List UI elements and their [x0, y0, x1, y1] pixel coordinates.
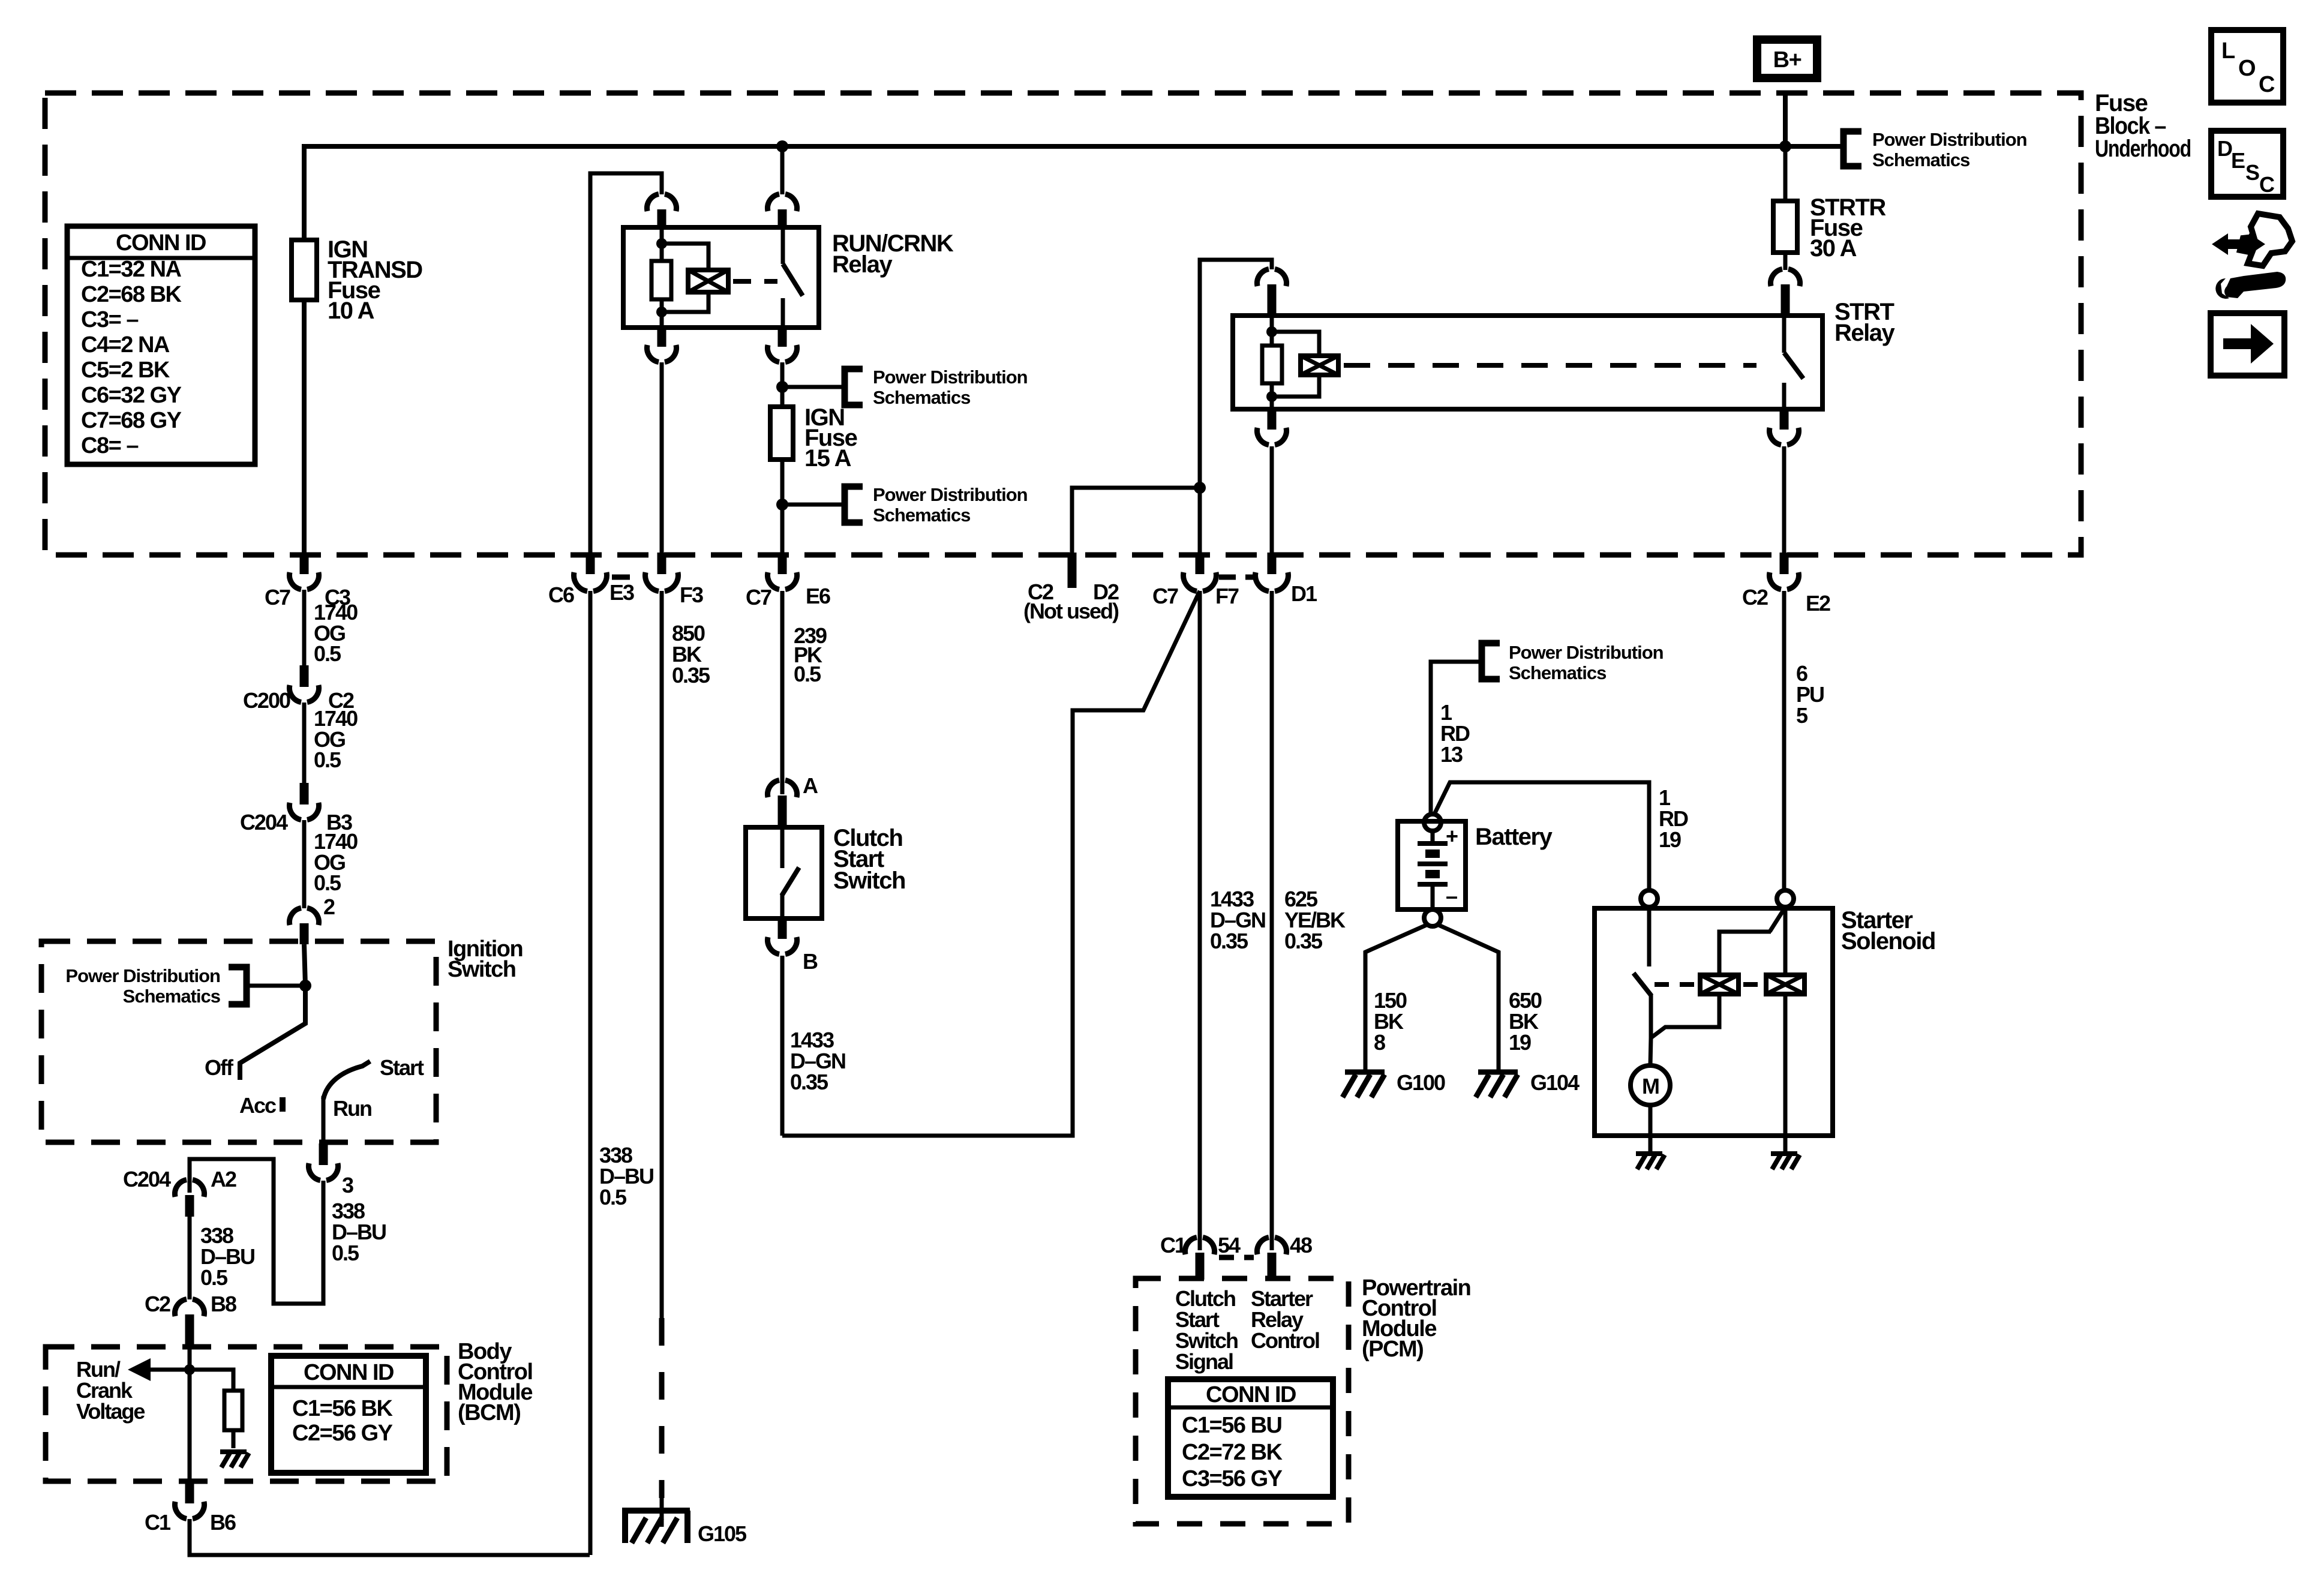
- connector bridge dash E3-F3: [612, 575, 642, 580]
- off-page bracket: Power Distribution Schematics (above IGN fuse): [782, 385, 845, 389]
- connector C204 cavity B3: [300, 783, 309, 804]
- wire main B+ bus: [304, 144, 1843, 149]
- svg-text:C: C: [2259, 72, 2275, 97]
- wire BCM internal run/crank voltage: [188, 1348, 192, 1484]
- wire 150 BK to G100: [1365, 924, 1429, 1071]
- svg-text:Run: Run: [333, 1096, 371, 1121]
- svg-text:13: 13: [1440, 742, 1463, 767]
- wire 338 D-BU loop from pin 3 to C204: [190, 1159, 323, 1304]
- svg-text:C2=72 BK: C2=72 BK: [1182, 1440, 1283, 1465]
- powertrain control module PCM (dashed box): [1136, 1278, 1349, 1524]
- svg-text:A2: A2: [211, 1167, 236, 1191]
- ignition position Acc tick: [280, 1097, 286, 1112]
- svg-text:M: M: [1642, 1074, 1659, 1098]
- icon LOC box: [2211, 30, 2283, 103]
- svg-text:8: 8: [1374, 1030, 1385, 1055]
- svg-text:Switch: Switch: [448, 957, 515, 982]
- svg-text:0.5: 0.5: [794, 662, 821, 686]
- CONN ID table (BCM): [271, 1356, 426, 1473]
- relay RUN/CRNK coil symbol: [688, 270, 728, 292]
- svg-text:G100: G100: [1397, 1070, 1445, 1095]
- svg-text:C7: C7: [1152, 584, 1178, 608]
- connector C200 cavity C2: [300, 665, 309, 687]
- svg-text:48: 48: [1290, 1233, 1312, 1257]
- svg-text:F3: F3: [680, 583, 703, 607]
- connector pin STRT relay coil bottom (85): [1268, 409, 1277, 430]
- svg-text:L: L: [2221, 38, 2235, 64]
- svg-text:0.35: 0.35: [1284, 929, 1323, 953]
- svg-text:Schematics: Schematics: [123, 986, 220, 1007]
- ground G100: [1343, 1072, 1385, 1097]
- svg-text:C1=56 BU: C1=56 BU: [1182, 1413, 1282, 1438]
- CONN ID table (fuse block): [67, 226, 255, 464]
- connector cavity F3: [657, 553, 666, 574]
- svg-text:CONN ID: CONN ID: [1206, 1382, 1296, 1407]
- wire STRT coil return to D1: [1270, 446, 1274, 553]
- junction below IGN fuse: [776, 499, 788, 511]
- svg-text:0.5: 0.5: [314, 748, 341, 772]
- wire 650 BK to G104: [1436, 924, 1499, 1071]
- svg-text:E2: E2: [1806, 591, 1830, 616]
- wire 1433 D-GN from clutch B: [780, 956, 785, 1136]
- switch clutch start: [746, 827, 822, 918]
- svg-text:G104: G104: [1530, 1070, 1580, 1095]
- solenoid switch left: [1647, 907, 1652, 966]
- wire 850 BK to G105 (upper solid): [660, 591, 664, 1318]
- connector C2 cavity D2 (not used): [1068, 553, 1077, 588]
- wire D1 down to PCM 48: [1270, 591, 1274, 1250]
- pin 2 entry into ignition switch: [289, 908, 319, 926]
- svg-text:0.35: 0.35: [790, 1070, 828, 1094]
- wire bus drop to RUN/CRNK relay switch (30): [780, 146, 785, 194]
- svg-text:Relay: Relay: [1834, 320, 1895, 346]
- wire relay switch output down to IGN fuse: [780, 362, 785, 553]
- svg-text:E6: E6: [806, 584, 830, 608]
- svg-text:E3: E3: [609, 580, 634, 605]
- svg-text:G105: G105: [698, 1521, 747, 1546]
- body control module BCM (dashed box): [46, 1347, 447, 1481]
- svg-text:Underhood: Underhood: [2095, 136, 2191, 162]
- connector C7 cavity E6: [778, 553, 787, 574]
- svg-text:Power Distribution: Power Distribution: [873, 484, 1028, 505]
- relay STRT coil circuit: [1270, 316, 1274, 346]
- svg-text:2: 2: [323, 894, 335, 919]
- relay STRT switch contact: [1782, 316, 1786, 409]
- wire D2 internal branch: [1072, 488, 1200, 553]
- svg-text:Start: Start: [380, 1055, 424, 1080]
- connector pin STRT relay switch top (30): [1770, 269, 1800, 287]
- relay STRT coil symbol: [1301, 356, 1338, 375]
- wire RUN/CRNK relay coil feed (from E3 drop): [590, 173, 662, 553]
- ground solenoid winding: [1771, 1154, 1800, 1169]
- pin 3 exit from ignition switch: [319, 1143, 328, 1165]
- svg-text:C7=68 GY: C7=68 GY: [81, 408, 182, 433]
- icon forward arrow box: [2211, 313, 2284, 376]
- resistor BCM pull-down: [190, 1370, 233, 1448]
- svg-text:C1: C1: [1160, 1233, 1187, 1257]
- svg-text:C4=2 NA: C4=2 NA: [81, 332, 170, 358]
- wire B+ feed down to bus: [1783, 95, 1788, 146]
- connector pin RUN/CRNK relay switch bottom (87): [778, 328, 787, 347]
- wire 850 BK dashed segment to G105: [659, 1318, 665, 1498]
- connector C7 cavity C3 (fuse block exit): [300, 553, 309, 574]
- wire 1740 OG segment 1: [302, 590, 307, 665]
- wire STRT relay coil feed from F7 riser: [1200, 260, 1272, 553]
- svg-text:CONN ID: CONN ID: [304, 1360, 394, 1385]
- battery negative terminal: [1424, 909, 1441, 926]
- solenoid pull-in winding path: [1651, 994, 1719, 1038]
- svg-text:C7: C7: [746, 585, 771, 610]
- wire 239 PK to clutch start switch: [780, 591, 785, 794]
- svg-text:Voltage: Voltage: [76, 1399, 145, 1424]
- svg-text:C200: C200: [243, 688, 290, 713]
- connector pin 48 PCM starter relay control: [1257, 1238, 1286, 1255]
- wire ignition switch common: [240, 944, 305, 1080]
- connector C204 cavity A2: [175, 1180, 204, 1197]
- svg-text:–: –: [1446, 884, 1457, 908]
- svg-text:30 A: 30 A: [1810, 235, 1857, 262]
- svg-text:C1: C1: [145, 1510, 171, 1535]
- connector C7 cavity F7: [1196, 553, 1205, 574]
- connector C6 cavity E3: [586, 553, 595, 574]
- svg-text:0.35: 0.35: [1210, 929, 1248, 953]
- node B+ terminal box: [1757, 40, 1817, 78]
- svg-text:Power Distribution: Power Distribution: [873, 367, 1028, 388]
- svg-text:0.5: 0.5: [314, 870, 341, 895]
- svg-text:C7: C7: [265, 585, 290, 610]
- relay RUN/CRNK coil circuit: [660, 227, 664, 261]
- svg-text:Power Distribution: Power Distribution: [1509, 642, 1664, 663]
- svg-text:+: +: [1446, 824, 1458, 848]
- svg-text:C6=32 GY: C6=32 GY: [81, 383, 182, 408]
- junction ignition feed tap: [299, 980, 311, 992]
- svg-text:C204: C204: [123, 1167, 171, 1191]
- wire BCM B6 return to E3 drop: [190, 1519, 590, 1555]
- svg-text:(BCM): (BCM): [458, 1400, 520, 1425]
- ground G104: [1476, 1072, 1518, 1097]
- svg-text:D: D: [2217, 136, 2232, 161]
- relay RUN/CRNK box: [623, 227, 819, 328]
- svg-text:B+: B+: [1773, 47, 1801, 73]
- ignition switch (dashed box): [41, 941, 436, 1142]
- svg-text:C204: C204: [240, 810, 288, 834]
- connector bridge dash F7-D1: [1219, 575, 1254, 580]
- junction IGN fuse top tap: [776, 381, 788, 393]
- svg-text:Off: Off: [205, 1055, 234, 1080]
- CONN ID table (PCM): [1168, 1379, 1333, 1497]
- svg-text:(Not used): (Not used): [1023, 599, 1119, 623]
- coil pull-in winding: [1700, 975, 1739, 994]
- wire relay coil return to F3: [660, 362, 664, 553]
- svg-text:Signal: Signal: [1175, 1349, 1233, 1374]
- svg-text:C6: C6: [548, 583, 574, 607]
- svg-text:C2: C2: [1742, 585, 1768, 610]
- svg-text:C5=2 BK: C5=2 BK: [81, 358, 170, 383]
- svg-text:E: E: [2231, 148, 2245, 173]
- svg-text:5: 5: [1796, 703, 1808, 728]
- junction bus/RUN-CRNK relay: [776, 140, 788, 152]
- battery: [1398, 821, 1466, 909]
- svg-text:Solenoid: Solenoid: [1841, 928, 1935, 954]
- off-page bracket: Power Distribution Schematics (top right): [1843, 131, 1861, 166]
- connector cavity D1: [1268, 553, 1277, 574]
- wire 1740 OG segment 3: [302, 820, 307, 908]
- ignition position Start curve: [323, 1061, 370, 1099]
- relay STRT actuation dashed link: [1344, 363, 1756, 368]
- svg-text:0.5: 0.5: [200, 1265, 228, 1290]
- svg-text:19: 19: [1659, 827, 1681, 852]
- svg-text:B8: B8: [211, 1292, 236, 1316]
- fuse STRTR 30A: [1783, 146, 1788, 270]
- svg-text:D1: D1: [1291, 581, 1317, 606]
- motor M starter: [1631, 1065, 1670, 1105]
- connector C2 cavity E2: [1780, 553, 1789, 574]
- svg-text:Control: Control: [1251, 1328, 1319, 1353]
- svg-text:C1=56 BK: C1=56 BK: [292, 1396, 394, 1421]
- wire STRT switch output to E2: [1782, 446, 1786, 553]
- wire 1740 OG segment 2: [302, 703, 307, 783]
- svg-text:Acc: Acc: [239, 1093, 276, 1118]
- connector pin RUN/CRNK relay coil bottom (86): [657, 328, 666, 347]
- junction D2 internal tie: [1194, 482, 1206, 494]
- svg-text:S: S: [2245, 160, 2259, 185]
- ground starter motor: [1636, 1154, 1665, 1169]
- svg-text:Power Distribution: Power Distribution: [1872, 129, 2027, 150]
- svg-text:10 A: 10 A: [328, 298, 374, 324]
- svg-text:C2=68 BK: C2=68 BK: [81, 282, 182, 307]
- coil hold-in winding: [1766, 975, 1804, 994]
- svg-text:Schematics: Schematics: [873, 387, 970, 408]
- svg-text:B: B: [803, 949, 818, 974]
- svg-text:3: 3: [342, 1173, 353, 1197]
- svg-text:CONN ID: CONN ID: [116, 230, 206, 256]
- svg-text:Schematics: Schematics: [1872, 149, 1969, 170]
- svg-text:Battery: Battery: [1475, 824, 1553, 850]
- connector C2 cavity B8 (BCM entry): [175, 1299, 204, 1317]
- off-page bracket: Power Distribution Schematics (battery feed): [1482, 643, 1500, 679]
- svg-text:15 A: 15 A: [804, 445, 851, 472]
- battery positive terminal: [1424, 814, 1441, 831]
- relay STRT box: [1233, 316, 1822, 409]
- connector pin B clutch start switch: [778, 918, 787, 939]
- svg-text:C3=56 GY: C3=56 GY: [1182, 1466, 1283, 1491]
- fuse block - underhood (dashed boundary): [45, 93, 2081, 555]
- svg-text:Relay: Relay: [832, 251, 893, 278]
- svg-text:C8= –: C8= –: [81, 433, 138, 458]
- wire hold-in winding feed: [1783, 907, 1788, 975]
- connector pin STRT relay switch bottom (87): [1780, 409, 1789, 430]
- wire hold-in winding ground: [1783, 994, 1788, 1152]
- starter solenoid box: [1595, 908, 1833, 1136]
- ground BCM internal: [220, 1452, 249, 1467]
- svg-text:0.5: 0.5: [314, 641, 341, 666]
- starter solenoid left post: [1641, 890, 1658, 907]
- svg-text:C1=32 NA: C1=32 NA: [81, 257, 182, 282]
- wire F7 straight down to PCM 54: [1198, 591, 1202, 1250]
- svg-text:F7: F7: [1215, 584, 1239, 608]
- svg-text:Schematics: Schematics: [873, 505, 970, 526]
- svg-text:Switch: Switch: [833, 867, 905, 894]
- connector pin A clutch start switch: [767, 781, 797, 798]
- relay RUN/CRNK switch contact: [781, 227, 785, 328]
- svg-text:B6: B6: [210, 1510, 236, 1535]
- relay RUN/CRNK actuation dashed link: [733, 279, 777, 284]
- starter solenoid right post: [1777, 890, 1794, 907]
- svg-text:Power Distribution: Power Distribution: [65, 965, 220, 986]
- connector pin C1-54 PCM clutch start switch signal: [1185, 1238, 1214, 1255]
- svg-text:0.5: 0.5: [332, 1241, 359, 1265]
- svg-text:C3= –: C3= –: [81, 307, 138, 332]
- connector pin RUN/CRNK relay coil (85): [647, 194, 676, 212]
- off-page bracket: Power Distribution Schematics (ignition feed): [229, 967, 247, 1004]
- svg-text:O: O: [2238, 56, 2255, 81]
- junction BCM internal: [184, 1364, 195, 1375]
- wire 1 RD 19 branch to starter solenoid: [1434, 782, 1649, 891]
- svg-text:0.5: 0.5: [599, 1185, 627, 1209]
- wire 338 D-BU long drop from E3: [588, 591, 593, 1555]
- connector bridge dash 54-48: [1219, 1255, 1254, 1260]
- solenoid switch right blade: [1719, 907, 1785, 975]
- svg-text:0.35: 0.35: [672, 663, 710, 688]
- svg-text:Schematics: Schematics: [1509, 662, 1606, 683]
- svg-text:54: 54: [1218, 1233, 1241, 1257]
- wire bus corner down to IGN TRANSD fuse: [302, 144, 307, 553]
- fuse IGN TRANSD 10A: [292, 240, 317, 300]
- wire 6 PU to starter solenoid: [1782, 591, 1786, 892]
- svg-text:A: A: [803, 773, 818, 798]
- wire 338 D-BU to BCM: [188, 1217, 192, 1299]
- connector C1 cavity B6 (BCM exit): [185, 1481, 194, 1503]
- wire motor ground: [1649, 1105, 1653, 1152]
- ground G105: [622, 1511, 690, 1543]
- wire 1 RD 13 battery feed: [1431, 662, 1482, 814]
- wire F7 split diagonal to clutch branch: [782, 591, 1200, 1136]
- svg-text:19: 19: [1509, 1030, 1531, 1055]
- wire run contact down: [322, 1096, 326, 1143]
- solenoid actuation dashed link: [1655, 982, 1695, 987]
- svg-text:C2: C2: [145, 1292, 170, 1316]
- svg-text:(PCM): (PCM): [1362, 1337, 1423, 1362]
- svg-text:C2=56 GY: C2=56 GY: [292, 1421, 393, 1446]
- junction bus/B+: [1779, 140, 1791, 152]
- fuse IGN 15A: [770, 407, 793, 460]
- icon service wrench with arrows: [2240, 214, 2292, 266]
- icon DESC box: [2211, 131, 2283, 197]
- connector pin RUN/CRNK relay switch: [767, 194, 797, 212]
- connector pin STRT relay coil top (86): [1257, 269, 1286, 287]
- node Run/Crank Voltage arrow: [148, 1368, 190, 1372]
- svg-text:C: C: [2259, 172, 2275, 197]
- off-page bracket: Power Distribution Schematics (below IGN fuse): [782, 503, 845, 507]
